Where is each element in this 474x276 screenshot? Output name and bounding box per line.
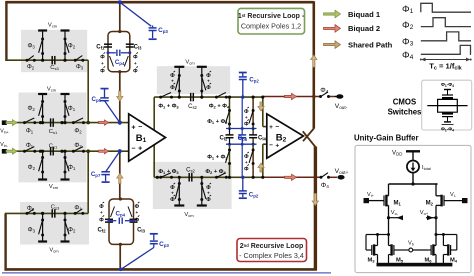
svg-text:Φ1 + Φ2: Φ1 + Φ2 [207,119,228,125]
svg-text:Φ1-Φ4: Φ1-Φ4 [441,126,454,132]
svg-text:+: + [131,124,135,131]
svg-text:Vo+: Vo+ [420,210,429,216]
svg-text:Vout-: Vout- [335,103,348,110]
svg-text:+: + [207,79,210,84]
svg-text:Vin+: Vin+ [0,128,8,134]
svg-text:Cp4: Cp4 [116,210,126,217]
svg-text:Vcm: Vcm [49,248,59,254]
svg-text:Complex Poles 1,2: Complex Poles 1,2 [241,22,301,31]
svg-text:Vcm: Vcm [48,23,58,29]
svg-text:+: + [171,79,174,84]
svg-text:Vcm: Vcm [185,60,195,66]
svg-text:Cf1: Cf1 [96,45,105,51]
svg-text:Vi+: Vi+ [367,192,375,198]
svg-text:Cp5: Cp5 [92,96,102,103]
svg-text:Cs1: Cs1 [49,129,58,135]
svg-text:Vi-: Vi- [450,192,457,198]
svg-text:Φ2: Φ2 [68,43,76,50]
svg-text:Cl3: Cl3 [137,228,146,234]
svg-text:Cp3: Cp3 [159,241,169,248]
svg-text:Φ2: Φ2 [68,227,76,234]
svg-text:Vcm: Vcm [49,184,59,190]
svg-text:Cp4: Cp4 [115,59,125,66]
svg-text:Cs2: Cs2 [186,167,195,173]
svg-text:Φ1: Φ1 [26,127,34,134]
svg-text:Φ: Φ [206,85,211,91]
svg-text:Φ: Φ [170,197,175,203]
svg-text:+: + [101,61,104,66]
svg-text:Φ2: Φ2 [28,164,36,171]
svg-text:Vin-: Vin- [0,142,8,148]
svg-text:Cs2: Cs2 [188,104,197,110]
svg-text:+: + [207,191,210,196]
svg-text:VDD: VDD [392,149,402,156]
svg-text:Vout+: Vout+ [335,168,349,175]
svg-text:Shared Path: Shared Path [348,40,393,49]
svg-text:M1: M1 [394,201,402,207]
svg-text:Φ3: Φ3 [27,43,35,50]
svg-text:Cs3: Cs3 [51,205,60,211]
svg-text:Φ1: Φ1 [68,164,76,171]
svg-text:Cp2: Cp2 [249,77,259,84]
svg-text:Φ2: Φ2 [74,127,82,134]
svg-text:Φ: Φ [133,55,138,61]
svg-text:Φ: Φ [135,218,140,224]
svg-text:+: + [134,61,137,66]
svg-text:Φ1 + Φ3: Φ1 + Φ3 [158,104,179,110]
svg-text:Cp3: Cp3 [158,27,168,34]
svg-text:Φ3: Φ3 [28,227,36,234]
svg-text:Vcm: Vcm [47,87,57,93]
svg-text:+: + [269,124,273,131]
svg-text:CMOS: CMOS [393,98,416,107]
svg-text:Φ1: Φ1 [68,105,76,112]
svg-text:1st Recursive Loop -: 1st Recursive Loop - [238,13,305,20]
svg-text:Φ2: Φ2 [27,205,35,212]
svg-text:M2: M2 [426,201,434,207]
svg-text:2nd Recursive Loop: 2nd Recursive Loop [240,243,304,250]
svg-text:M5: M5 [396,257,404,263]
svg-text:+: + [245,160,248,165]
svg-text:Φ1: Φ1 [74,205,82,212]
svg-text:Cs3: Cs3 [50,65,59,71]
svg-text:M3: M3 [367,257,375,263]
svg-text:Itotal: Itotal [422,165,431,171]
svg-text:−: − [138,124,142,131]
svg-text:Biquad 2: Biquad 2 [348,24,380,33]
svg-text:Switches: Switches [388,108,422,117]
svg-text:M6: M6 [424,257,432,263]
svg-text:Φ: Φ [206,197,211,203]
svg-text:Φ1 + Φ2: Φ1 + Φ2 [207,154,228,160]
svg-text:Φ: Φ [99,218,104,224]
svg-text:Cl4: Cl4 [258,136,267,142]
svg-text:+: + [171,191,174,196]
svg-text:Φ: Φ [170,85,175,91]
svg-text:Cp6: Cp6 [238,135,248,142]
svg-text:Φ: Φ [100,69,105,75]
svg-text:Cp7: Cp7 [91,171,101,178]
svg-text:+: + [100,210,103,215]
svg-text:Cl3: Cl3 [134,45,143,51]
svg-text:−: − [131,145,135,152]
svg-text:Unity-Gain Buffer: Unity-Gain Buffer [354,133,419,142]
svg-text:- Complex Poles 3,4: - Complex Poles 3,4 [239,251,304,260]
svg-text:Φ2: Φ2 [27,105,35,112]
svg-text:Cl2: Cl2 [219,136,228,142]
svg-text:+: + [245,115,248,120]
svg-text:Φ2: Φ2 [27,64,35,71]
svg-text:Φ2 + Φ4: Φ2 + Φ4 [209,104,230,110]
svg-text:Φ3: Φ3 [76,64,84,71]
svg-text:+: + [138,146,142,153]
svg-text:Biquad 1: Biquad 1 [348,10,381,19]
svg-text:−: − [275,124,279,131]
svg-text:Cp2: Cp2 [249,192,259,199]
svg-text:Φ1-Φ4: Φ1-Φ4 [441,82,454,88]
svg-text:Φ: Φ [100,55,105,61]
svg-text:Vb: Vb [408,241,415,247]
svg-text:Φ: Φ [244,122,249,128]
svg-text:Vo-: Vo- [391,210,399,216]
svg-text:Φ: Φ [244,167,249,173]
svg-text:Vcm: Vcm [184,212,194,218]
svg-text:+: + [135,210,138,215]
svg-text:−: − [269,142,273,149]
svg-text:Φ: Φ [133,69,138,75]
svg-text:M4: M4 [450,257,458,263]
svg-text:Cf2: Cf2 [97,228,106,234]
